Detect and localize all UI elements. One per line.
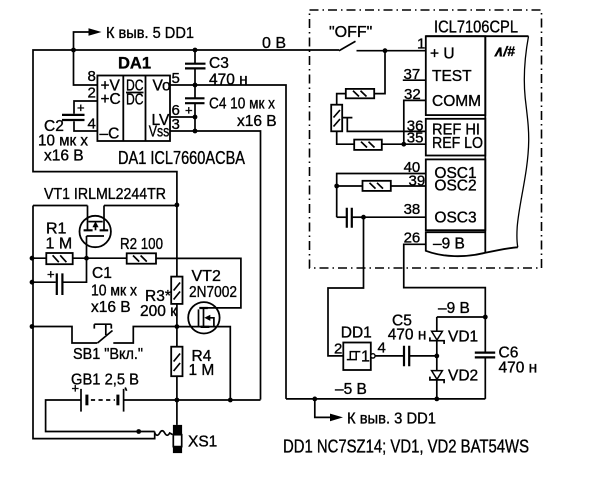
wire VT2 gate/source bottom <box>177 327 230 400</box>
svg-text:∧/#: ∧/# <box>493 43 515 59</box>
svg-text:R2 100: R2 100 <box>120 236 163 253</box>
switch OFF <box>339 41 356 50</box>
wire pin 35 REF LO <box>382 143 426 145</box>
capacitor C3 <box>194 50 196 85</box>
wire battery plus to XS1 contact <box>46 400 155 432</box>
svg-text:39: 39 <box>409 172 426 189</box>
multimeter dash-dot border <box>310 10 542 268</box>
node 0V/DA1 junction <box>71 48 76 53</box>
svg-text:1 М: 1 М <box>189 362 215 379</box>
capacitor C4 <box>194 85 196 131</box>
svg-text:4: 4 <box>378 340 386 357</box>
wire left rail lower segment to XS1 <box>33 206 155 439</box>
wire pin 38 OSC3 <box>364 216 426 218</box>
svg-text:+: + <box>185 103 193 118</box>
svg-text:+: + <box>72 381 80 396</box>
resistor OSC <box>363 181 391 191</box>
svg-text:х16 В: х16 В <box>237 113 277 130</box>
svg-text:470 н: 470 н <box>388 326 427 343</box>
svg-text:ICL7106CPL: ICL7106CPL <box>434 17 518 37</box>
svg-text:XS1: XS1 <box>188 434 217 451</box>
node -9 V <box>483 315 488 320</box>
node VD1/VD2/C5 <box>434 354 439 359</box>
svg-text:10 мк х: 10 мк х <box>91 283 137 300</box>
svg-text:REF LO: REF LO <box>432 135 483 152</box>
svg-text:DD1 NC7SZ14; VD1, VD2 BAT54WS: DD1 NC7SZ14; VD1, VD2 BAT54WS <box>283 437 529 457</box>
svg-text:К выв. 3 DD1: К выв. 3 DD1 <box>347 411 436 428</box>
wire R2 to VT2 drain <box>156 258 241 308</box>
IC torn right edge <box>517 36 529 247</box>
svg-text:OSC2: OSC2 <box>434 178 476 195</box>
resistor REF LO <box>354 140 382 150</box>
svg-text:+ U: + U <box>430 46 455 63</box>
svg-text:200 к: 200 к <box>140 303 177 320</box>
svg-text:SB1 "Вкл.": SB1 "Вкл." <box>73 346 143 363</box>
IC box section 4 minus 9 V <box>426 232 518 256</box>
svg-text:2: 2 <box>88 85 96 102</box>
svg-text:C4 10 мк х: C4 10 мк х <box>209 96 275 113</box>
diode VD1 <box>436 317 438 331</box>
svg-text:470 н: 470 н <box>499 359 538 376</box>
pushbutton SB1 <box>30 324 35 329</box>
resistor R2 <box>127 253 156 263</box>
svg-text:+: + <box>77 100 85 115</box>
resistor R3 <box>176 205 178 327</box>
wire -9 V rail <box>437 316 486 318</box>
wire -5 V rail <box>286 398 485 400</box>
svg-text:х16 В: х16 В <box>91 299 131 316</box>
node VT1 drain junction <box>175 203 180 208</box>
svg-text:Vo: Vo <box>153 78 171 95</box>
svg-text:COMM: COMM <box>432 93 481 110</box>
capacitor C6 <box>484 317 486 399</box>
svg-text:–5 В: –5 В <box>335 381 367 398</box>
svg-text:VT2: VT2 <box>192 268 221 285</box>
capacitor C1 <box>32 258 87 282</box>
wire DA1 pin 3 to battery minus rail <box>170 131 261 400</box>
svg-text:DC: DC <box>126 92 144 109</box>
wire DA1 pin 5 Vo to -5V rail <box>170 85 286 399</box>
svg-text:VD1: VD1 <box>448 328 478 345</box>
wire VT1 drain to R3 node <box>104 205 177 207</box>
svg-text:OSC3: OSC3 <box>434 210 476 227</box>
svg-text:Vss: Vss <box>149 124 170 141</box>
svg-text:+: + <box>47 267 55 282</box>
svg-text:1 М: 1 М <box>46 236 73 253</box>
resistor R4 <box>176 327 178 400</box>
wire pin 26 to -9 V node <box>404 244 486 317</box>
svg-text:4: 4 <box>88 116 96 133</box>
transistor VT1 <box>80 206 111 259</box>
svg-text:2N7002: 2N7002 <box>189 284 237 301</box>
IC box section 2 REF <box>426 119 486 156</box>
svg-text:х16 В: х16 В <box>44 148 84 165</box>
wire DA1 pin 8 <box>74 50 98 85</box>
IC top edge and divider <box>426 36 529 253</box>
op-amp DA1 box <box>97 76 170 143</box>
wire pin 32 COMM to REF LO <box>404 100 426 144</box>
diode VD2 <box>436 356 438 371</box>
wire OSC3 node to DD1 input <box>328 217 364 356</box>
IC box section 3 OSC <box>426 159 486 230</box>
svg-text:GB1 2,5 В: GB1 2,5 В <box>71 372 139 389</box>
svg-text:1: 1 <box>361 349 370 366</box>
svg-text:К выв. 5 DD1: К выв. 5 DD1 <box>106 25 194 42</box>
svg-text:"OFF": "OFF" <box>329 24 372 41</box>
wire pin1 node to divider resistor <box>374 51 385 94</box>
wire VT1 source top <box>33 205 88 207</box>
svg-text:C3: C3 <box>209 55 229 72</box>
trimmer tap to pin 36 REF HI <box>342 118 426 132</box>
svg-text:DA1 ICL7660ACBA: DA1 ICL7660ACBA <box>118 148 245 168</box>
svg-text:0 В: 0 В <box>262 35 286 52</box>
resistor R1 <box>32 257 127 259</box>
pin 37 stub <box>403 79 426 81</box>
wire DA1 pin 2 <box>74 101 97 114</box>
wire arrow to pin 3 DD1 <box>315 399 330 418</box>
svg-text:VT1 IRLML2244TR: VT1 IRLML2244TR <box>44 186 166 203</box>
svg-text:C1: C1 <box>92 265 112 282</box>
svg-text:470 н: 470 н <box>209 72 248 89</box>
connector XS1 <box>155 431 173 436</box>
svg-text:32: 32 <box>404 86 421 103</box>
capacitor C5 <box>375 355 437 357</box>
svg-text:–9 В: –9 В <box>438 300 470 317</box>
svg-text:–9 В: –9 В <box>433 236 465 253</box>
svg-text:VD2: VD2 <box>448 368 478 385</box>
svg-text:26: 26 <box>404 230 421 247</box>
resistor divider top <box>346 89 374 98</box>
wire pin 40 OSC1 <box>337 174 426 218</box>
capacitor C2 <box>62 115 85 120</box>
resistor trimmer vertical <box>331 105 342 132</box>
capacitor OSC <box>337 216 346 218</box>
svg-text:3: 3 <box>172 116 180 133</box>
svg-text:–C: –C <box>100 126 120 143</box>
IC box section 1 <box>426 36 486 115</box>
wire arrow to pin 5 DD1 <box>74 32 89 50</box>
wire DA1 pin 6 <box>170 116 195 118</box>
svg-text:TEST: TEST <box>432 68 472 85</box>
svg-text:5: 5 <box>172 70 180 87</box>
svg-text:DA1: DA1 <box>118 55 151 73</box>
svg-text:37: 37 <box>404 66 421 83</box>
svg-text:8: 8 <box>88 68 96 85</box>
wire trimmer bottom <box>337 131 355 144</box>
wire DA1 pin 4 <box>74 121 97 131</box>
wire battery minus rail <box>124 399 261 401</box>
wire pin 39 OSC2 <box>337 185 426 187</box>
svg-text:38: 38 <box>404 201 421 218</box>
svg-text:+C: +C <box>101 91 121 108</box>
svg-text:35: 35 <box>407 129 424 146</box>
wire 0 V rail / left top rail to VT1 drain node <box>33 50 339 205</box>
wire to trimmer <box>337 94 346 105</box>
svg-text:1: 1 <box>417 36 425 53</box>
svg-text:2: 2 <box>334 341 342 358</box>
svg-text:DD1: DD1 <box>341 325 372 342</box>
